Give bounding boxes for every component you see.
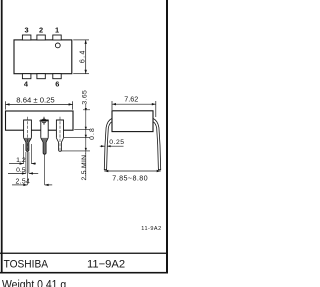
- svg-text:0.25: 0.25: [109, 139, 124, 146]
- svg-text:Weight 0.41 g: Weight 0.41 g: [2, 279, 66, 287]
- svg-text:8.64 ± 0.25: 8.64 ± 0.25: [16, 96, 54, 105]
- svg-text:6.4: 6.4: [80, 49, 87, 63]
- svg-text:0.5: 0.5: [16, 167, 26, 174]
- svg-text:0.8: 0.8: [89, 127, 96, 140]
- svg-text:6: 6: [55, 80, 59, 89]
- svg-text:7.62: 7.62: [124, 95, 138, 104]
- svg-text:TOSHIBA: TOSHIBA: [4, 258, 49, 271]
- svg-text:7.85~8.80: 7.85~8.80: [112, 174, 148, 183]
- svg-text:11-9A2: 11-9A2: [141, 226, 161, 232]
- svg-text:11−9A2: 11−9A2: [87, 258, 125, 270]
- svg-text:2.5 MIN.: 2.5 MIN.: [81, 152, 88, 180]
- svg-text:1.2: 1.2: [16, 157, 26, 164]
- svg-text:2: 2: [39, 25, 43, 34]
- svg-text:3.65: 3.65: [81, 90, 88, 105]
- svg-text:2.54: 2.54: [15, 178, 30, 185]
- svg-text:1: 1: [55, 25, 59, 34]
- svg-text:3: 3: [25, 25, 29, 34]
